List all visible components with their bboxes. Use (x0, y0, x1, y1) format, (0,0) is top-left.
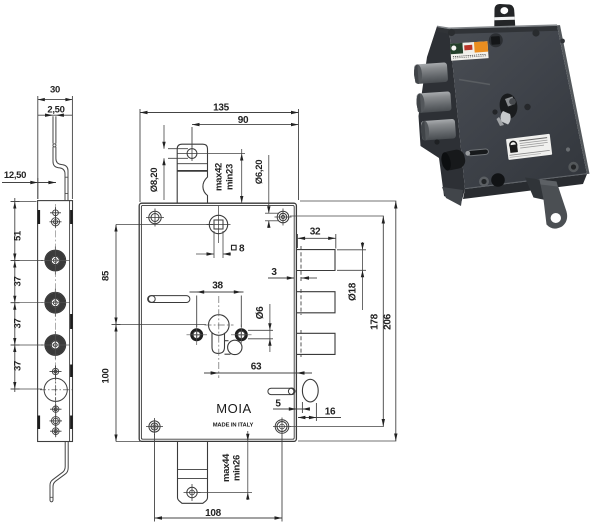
big plain circle (40, 374, 72, 406)
svg-text:min26: min26 (232, 455, 243, 481)
dim 3 (268, 277, 317, 279)
photo: bolt 3 (420, 119, 456, 141)
cylinder centerlines (218, 296, 220, 378)
svg-text:37: 37 (13, 277, 24, 287)
svg-text:max42: max42 (214, 163, 225, 191)
corner screw BR (273, 418, 291, 436)
svg-text:37: 37 (13, 319, 24, 329)
bolt 1 (297, 250, 335, 271)
svg-text:Ø18: Ø18 (348, 282, 359, 301)
corner screw TL (146, 209, 164, 227)
latch oval (302, 379, 318, 402)
chain dim 51/37/37/37 (11, 198, 44, 392)
dim diam 6,20 (265, 155, 279, 228)
dim 178 (290, 216, 384, 427)
svg-text:8: 8 (239, 244, 245, 255)
svg-text:206: 206 (383, 313, 394, 330)
svg-text:63: 63 (251, 362, 262, 373)
svg-text:32: 32 (310, 227, 321, 238)
photo: stamped groove (459, 80, 490, 85)
svg-text:90: 90 (238, 115, 249, 126)
svg-text:135: 135 (213, 102, 230, 113)
top small screw B (50, 216, 62, 228)
svg-text:Ø8,20: Ø8,20 (149, 168, 160, 192)
svg-text:51: 51 (13, 230, 24, 241)
photo: bottom mounting tab fold (525, 178, 545, 201)
dim 16 (298, 403, 341, 421)
svg-text:38: 38 (212, 281, 223, 292)
cylinder screw L (187, 325, 208, 346)
svg-text:MOIA: MOIA (216, 401, 252, 416)
svg-text:16: 16 (325, 407, 336, 418)
photo: face screws (448, 29, 455, 36)
cylinder profile (209, 315, 243, 355)
knob 2 (41, 289, 70, 317)
photo: side bottom piece (442, 187, 463, 206)
dim 32 (298, 234, 337, 249)
bottom rod (50, 442, 68, 502)
dim 63 (204, 372, 312, 374)
svg-text:100: 100 (101, 369, 112, 384)
dim 2,50 (38, 114, 72, 116)
dim 85/100 (112, 225, 214, 442)
photo: orange label (450, 41, 489, 61)
svg-text:5: 5 (275, 399, 281, 410)
svg-text:min23: min23 (225, 164, 236, 190)
svg-text:37: 37 (13, 361, 24, 371)
dim 5 (273, 402, 308, 413)
bottom tab (178, 442, 208, 504)
dim diam 18 (337, 242, 366, 310)
photo: bolt 2 (416, 91, 452, 113)
dim 90 (192, 125, 299, 147)
photo: top edge highlight (437, 24, 557, 29)
square follower (207, 206, 231, 243)
faceplate outline (38, 201, 73, 442)
svg-text:3: 3 (271, 267, 277, 278)
lock body (139, 203, 296, 441)
svg-text:Ø6,20: Ø6,20 (254, 160, 265, 184)
bolt 2 (297, 292, 335, 313)
photo: follower square hole (489, 33, 503, 47)
corner screw BL (146, 418, 163, 435)
knob 1 (41, 247, 70, 275)
dim max44 min26 (198, 431, 252, 500)
dim diam 6 (248, 304, 273, 352)
left slot (148, 296, 190, 303)
dim max42 min23 (197, 149, 245, 203)
top small screw A (50, 207, 61, 218)
dim 108 (155, 434, 283, 522)
dim 12,50 (2, 178, 56, 199)
photo: body side left face (419, 26, 466, 203)
photo: bolt 1 (413, 62, 448, 84)
dim 38 (190, 292, 244, 327)
top tab screw (178, 146, 198, 161)
dim diam 8,20 (164, 125, 188, 200)
top tab (177, 144, 207, 203)
top rod (53, 116, 68, 200)
bolt 3 (297, 333, 335, 354)
bottom screw 2 (50, 415, 63, 427)
photo: bottom mounting tab (540, 180, 568, 229)
knob 3 (41, 331, 70, 359)
svg-text:108: 108 (205, 508, 222, 519)
corner screw TR (275, 209, 292, 226)
photo: body bottom face (463, 174, 587, 199)
dim 206 (298, 201, 396, 441)
photo: slot slit (465, 149, 488, 156)
photo: right edge shade (557, 25, 590, 174)
svg-text:30: 30 (50, 85, 60, 96)
photo: top mounting tab (494, 4, 515, 27)
svg-text:12,50: 12,50 (4, 170, 26, 181)
svg-text:Ø6: Ø6 (255, 306, 266, 319)
bottom tab screw (184, 484, 201, 501)
dim 30 (38, 96, 73, 199)
bottom screw 3 (50, 426, 62, 438)
photo: white label (506, 134, 552, 160)
bottom screw 1 (50, 404, 62, 416)
svg-text:178: 178 (370, 313, 381, 330)
mid small screw (50, 366, 62, 378)
bottom right slot (268, 388, 295, 395)
photo: cylinder with key (498, 92, 519, 119)
photo: black knob bottom left (440, 148, 467, 171)
dim square 8 (196, 231, 231, 258)
photo: body front face (449, 25, 587, 189)
svg-text:max44: max44 (221, 453, 232, 482)
photo: bottom screws (479, 177, 489, 187)
svg-text:2,50: 2,50 (47, 105, 64, 116)
svg-text:MADE IN ITALY: MADE IN ITALY (213, 423, 254, 429)
svg-text:85: 85 (101, 270, 112, 281)
cylinder screw R (231, 325, 252, 346)
faceplate centerline (55, 204, 57, 438)
dim 135 (140, 109, 299, 202)
edge clip marks (39, 210, 72, 429)
